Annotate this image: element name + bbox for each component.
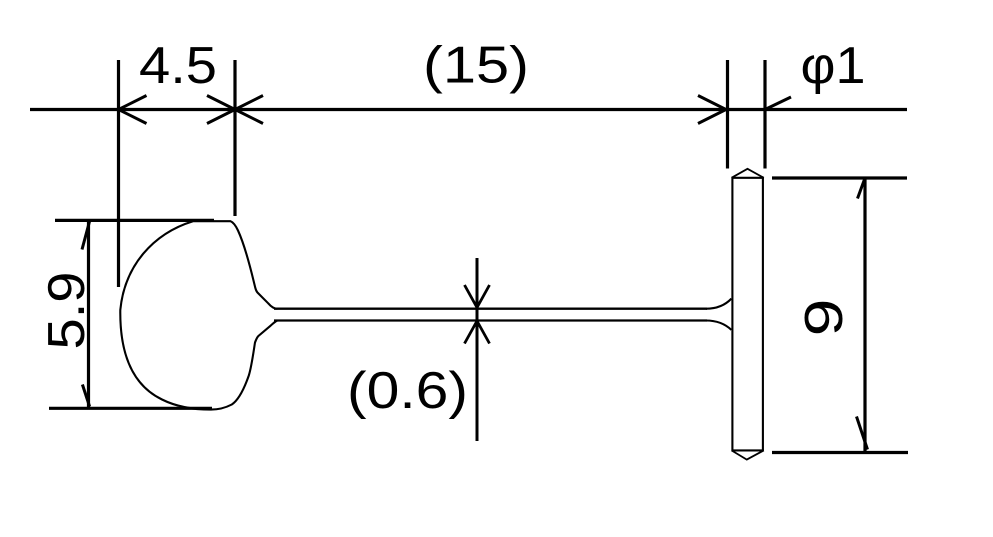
- extension line: 4.5 left: [117, 60, 120, 287]
- extension line: phi1 right: [763, 60, 766, 169]
- svg-text:(15): (15): [423, 37, 529, 95]
- tick: 9 bottom half-arrow: [857, 417, 868, 450]
- part outline: shaft-to-pin flare bottom: [706, 321, 731, 330]
- part outline: pin top cone tip: [732, 169, 764, 178]
- arrowhead: (15) left pointing left (tip x=235, barbs to the right): [235, 96, 263, 124]
- extension line: 5.9 top: [55, 219, 214, 222]
- part outline: shaft bottom line: [274, 319, 707, 321]
- svg-text:9: 9: [794, 299, 854, 337]
- svg-text:(0.6): (0.6): [347, 362, 468, 420]
- part outline: pin right edge: [762, 178, 764, 451]
- part outline: pin left edge: [731, 178, 733, 451]
- dimension line: 0.6 vertical: [476, 258, 479, 441]
- tick: 5.9 top half-arrow: [82, 222, 90, 250]
- part outline: pin bottom line: [732, 449, 764, 451]
- part outline: shaft-to-pin flare top: [706, 299, 731, 309]
- part outline: shaft top line: [274, 308, 707, 310]
- tick: 5.9 bottom half-arrow: [82, 385, 89, 407]
- dimension line: 9 vertical: [863, 178, 866, 453]
- arrowhead: phi1 half-arrow (tip x=765, upper barb to the right): [765, 97, 791, 110]
- part outline: paddle head: [120, 221, 277, 409]
- arrowhead: 0.6 upper (tip on shaft top line): [465, 285, 490, 308]
- svg-text:5.9: 5.9: [38, 272, 96, 350]
- extension line: 9 bottom: [772, 451, 908, 454]
- extension line: 4.5 right: [233, 60, 236, 216]
- arrowhead: 4.5 right pointing right (tip x=235, barbs to the left): [207, 96, 235, 124]
- extension line: 5.9 bottom: [49, 407, 212, 410]
- arrowhead: (15) right pointing right (tip x=726, barbs to the left): [698, 96, 726, 124]
- part outline: pin top line: [732, 177, 764, 179]
- extension line: 9 top: [772, 176, 907, 179]
- svg-text:φ1: φ1: [801, 37, 866, 95]
- part outline: pin bottom cone tip: [732, 450, 764, 459]
- arrowhead: 0.6 lower (tip on shaft bottom line): [465, 321, 490, 344]
- tick: 9 top half-arrow: [858, 179, 865, 199]
- dimension line: top horizontal: [30, 108, 907, 111]
- extension line: phi1 left: [726, 60, 729, 169]
- arrowhead: 4.5 left (tip x=118.5, barbs to the right): [119, 96, 147, 124]
- svg-text:4.5: 4.5: [139, 37, 217, 95]
- dimension line: 5.9 vertical: [87, 220, 90, 408]
